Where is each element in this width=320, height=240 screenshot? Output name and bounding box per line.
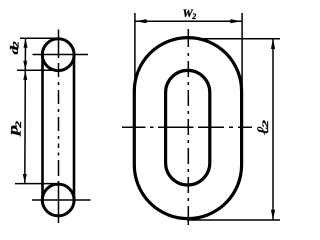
d2 top extension line [20, 37, 58, 39]
outer oval contour [134, 38, 241, 219]
L2 bottom extension line [187, 219, 280, 221]
inner oval contour [166, 70, 210, 185]
label p2 [6, 120, 24, 137]
bottom wire cross-section circle [42, 184, 74, 216]
front view horizontal centerline [122, 126, 252, 128]
dimension line L2 [272, 39, 274, 220]
p2 bottom extension line [15, 183, 60, 185]
p2 arrow down [23, 174, 27, 183]
side view right edge line [73, 54, 76, 201]
dimension line W2 [135, 20, 242, 22]
d2 arrow down [23, 61, 27, 70]
bottom circle horizontal centerline [32, 199, 91, 201]
dimension line p2 [24, 70, 27, 183]
svg-text:2: 2 [15, 120, 24, 128]
d2 arrow up [24, 38, 28, 47]
label L2 [254, 119, 272, 135]
label W2 [183, 8, 197, 21]
L2 arrow down [271, 210, 275, 220]
p2 arrow up [23, 71, 27, 80]
top wire cross-section circle [42, 39, 74, 71]
front view vertical centerline [187, 29, 189, 225]
d2 bottom extension line [17, 69, 64, 71]
W2 arrow right [230, 19, 241, 23]
left view vertical centerline [58, 30, 60, 224]
side view left edge line [41, 54, 44, 201]
top circle horizontal centerline [33, 54, 89, 56]
svg-text:2: 2 [191, 12, 196, 21]
W2 arrow left [135, 19, 146, 23]
label d2 [8, 41, 21, 55]
dimension line d2 [24, 38, 26, 70]
svg-text:2: 2 [12, 41, 21, 49]
W2 left extension line [134, 13, 136, 95]
L2 arrow up [271, 39, 275, 49]
L2 top extension line [195, 38, 280, 40]
W2 right extension line [241, 13, 243, 95]
svg-text:2: 2 [261, 119, 270, 129]
